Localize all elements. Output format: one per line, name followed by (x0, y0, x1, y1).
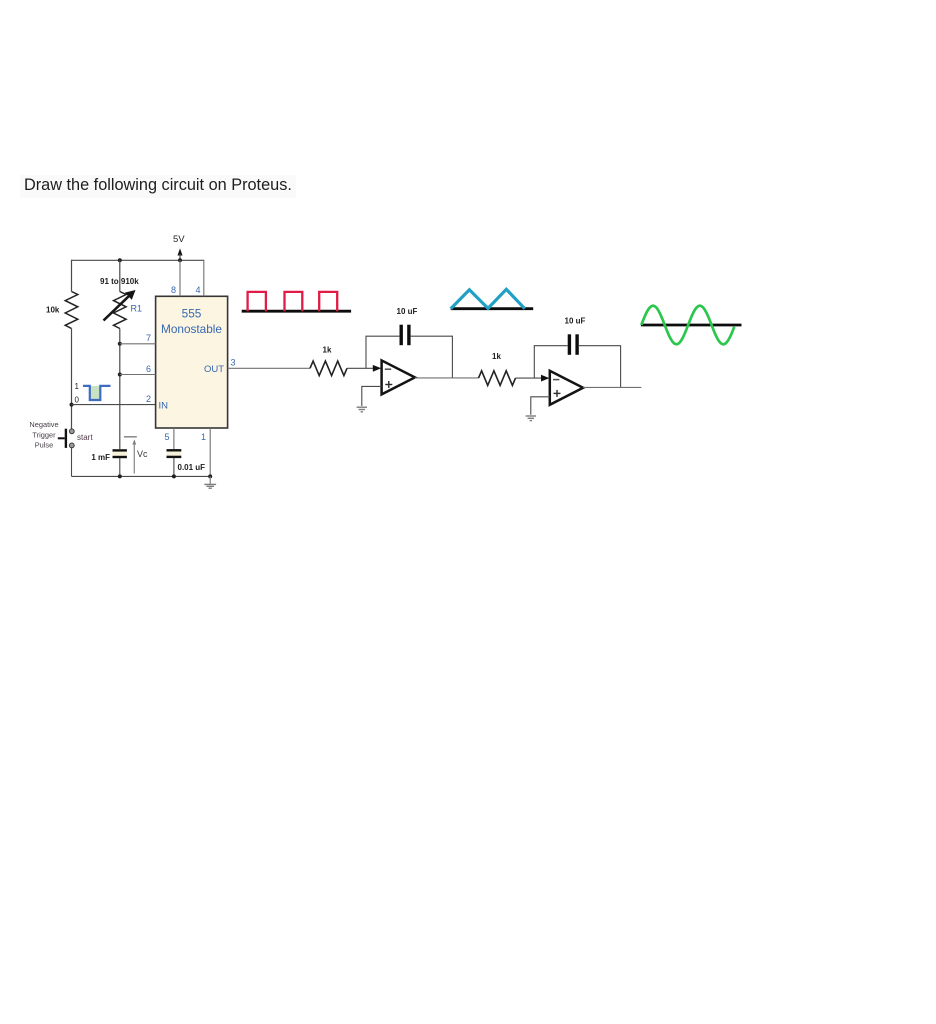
node junction bottom rail / 0.01uF (172, 474, 176, 478)
wire feedback loop opamp1 (366, 336, 399, 368)
wire opamp2 output (583, 386, 641, 388)
wire 0.01uF to bottom rail (173, 458, 175, 477)
svg-text:1: 1 (201, 432, 206, 442)
svg-text:Pulse: Pulse (35, 440, 54, 449)
svg-text:10 uF: 10 uF (397, 307, 418, 316)
svg-text:1k: 1k (323, 345, 332, 354)
wire R1 branch upper (119, 260, 121, 291)
svg-text:1 mF: 1 mF (91, 453, 110, 462)
svg-text:Vc: Vc (137, 449, 148, 459)
svg-text:4: 4 (195, 285, 200, 295)
waveform sine baseline (641, 324, 742, 327)
ground under pin 1 (204, 476, 216, 488)
wire R3 to opamp2 (516, 377, 543, 379)
op-amp U3 minus sign (553, 379, 559, 381)
wire opamp1 output (415, 377, 479, 379)
waveform square wave pulses (red) (248, 292, 338, 311)
svg-text:91 to 910k: 91 to 910k (100, 277, 139, 286)
op-amp U2 minus sign (385, 368, 391, 370)
arrowhead into opamp2 (541, 375, 549, 382)
wire R1 branch lower (119, 329, 121, 450)
waveform triangle wave (blue) (451, 289, 525, 308)
trigger pulse waveform (83, 386, 111, 400)
node junction R1 / pin7 wire (118, 342, 122, 346)
pin 8 wire (179, 260, 181, 296)
feedback capacitor 10 uF (second) (569, 334, 577, 355)
svg-text:0: 0 (75, 396, 80, 405)
resistor 10k (65, 292, 78, 329)
svg-text:6: 6 (146, 364, 151, 374)
svg-text:8: 8 (171, 285, 176, 295)
svg-text:R1: R1 (131, 304, 143, 314)
wire top rail (72, 259, 204, 261)
node junction R1 / pin6 wire (118, 373, 122, 377)
svg-text:10 uF: 10 uF (565, 316, 586, 325)
5V supply arrow (178, 248, 183, 260)
resistor 1k (first) (310, 361, 347, 376)
svg-text:10k: 10k (46, 306, 60, 315)
capacitor 0.01 uF (167, 450, 182, 457)
pushbutton start actuator (58, 429, 66, 448)
op-amp U2 triangle (382, 360, 415, 394)
svg-text:5: 5 (164, 432, 169, 442)
ground at opamp1 (357, 407, 367, 412)
svg-text:IN: IN (159, 401, 169, 412)
wire bottom rail (72, 475, 211, 477)
wire 1mF to bottom rail (119, 458, 121, 476)
node junction top rail / 5V (178, 258, 182, 262)
wire feedback loop opamp2 (534, 346, 567, 378)
wire R2 to opamp1 (347, 367, 374, 369)
title text (20, 175, 296, 198)
Vc indicator bar (124, 436, 137, 438)
svg-text:2: 2 (146, 394, 151, 404)
resistor 1k (second) (479, 371, 516, 386)
ground at opamp2 (526, 416, 536, 421)
wire feedback loop opamp1 right (411, 336, 453, 378)
waveform square wave baseline (242, 310, 351, 313)
pushbutton start contact pins (69, 429, 74, 448)
trigger pulse notch fill (91, 386, 100, 400)
node junction left rail / pin2 wire (70, 403, 74, 407)
pin 4 wire (203, 260, 205, 297)
wire opamp2 plus input (531, 397, 550, 415)
Vc indicator arrow (132, 439, 136, 473)
svg-text:Negative: Negative (29, 420, 58, 429)
svg-text:0.01 uF: 0.01 uF (178, 463, 206, 472)
pin 7 wire (120, 343, 156, 345)
node junction top rail / R1 (118, 258, 122, 262)
pin 1 wire (209, 428, 211, 476)
pin 5 wire (173, 428, 175, 449)
svg-text:Monostable: Monostable (161, 322, 222, 336)
op-amp U3 triangle (550, 371, 583, 405)
svg-text:3: 3 (231, 358, 236, 368)
op-amp U2 plus sign (385, 381, 392, 388)
svg-text:1: 1 (75, 382, 80, 391)
svg-text:7: 7 (146, 333, 151, 343)
svg-text:5V: 5V (173, 234, 185, 245)
node junction bottom rail / pin1 (208, 474, 212, 478)
resistor R1 adjust arrow (104, 290, 136, 321)
node junction bottom rail / 1mF (118, 474, 122, 478)
waveform sine wave (green) (641, 306, 734, 345)
capacitor 1 mF (113, 450, 127, 457)
svg-text:OUT: OUT (204, 364, 224, 375)
pin 6 wire (120, 374, 156, 376)
wire left rail upper (71, 260, 73, 292)
svg-text:1k: 1k (492, 352, 501, 361)
wire opamp1 plus input (362, 386, 382, 406)
op-amp U3 plus sign (554, 390, 561, 397)
wire OUT pin3 to R2 (228, 367, 310, 369)
resistor R1 rheostat zigzag (114, 292, 127, 329)
wire feedback loop opamp2 right (579, 346, 621, 388)
waveform triangle baseline (451, 307, 534, 310)
IC U1 555 monostable body (156, 296, 228, 428)
svg-text:555: 555 (182, 307, 202, 321)
feedback capacitor 10 uF (first) (401, 325, 409, 346)
svg-text:start: start (77, 433, 93, 442)
wire button to bottom rail (71, 448, 73, 477)
wire pin2 net (72, 404, 156, 406)
arrowhead into opamp1 (373, 365, 381, 372)
wire left rail middle (71, 329, 73, 430)
svg-text:Trigger: Trigger (32, 430, 56, 439)
